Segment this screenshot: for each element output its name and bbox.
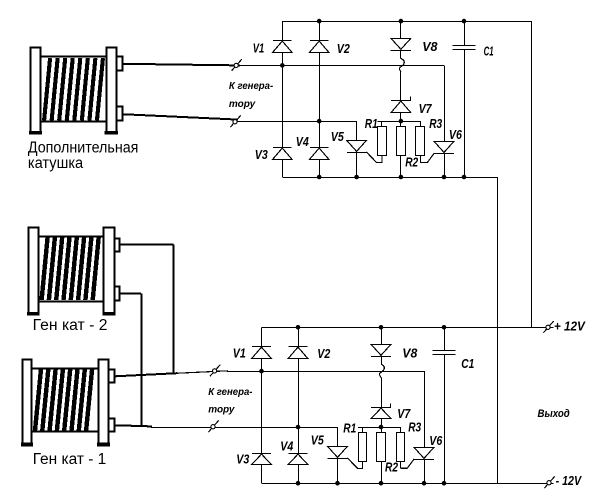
svg-text:V8: V8 [402, 347, 417, 361]
lower block: top rail / +12V wire [262, 327, 554, 329]
svg-text:- 12V: - 12V [556, 474, 583, 488]
coil L3 left flange bottom smear [21, 443, 33, 447]
terminal mark lower input 2 [208, 421, 218, 433]
coil L1 right flange [107, 48, 117, 134]
wire: upper V1 branch [282, 21, 284, 177]
svg-text:V1: V1 [253, 41, 265, 55]
coil L2 winding body [38, 237, 103, 302]
terminal mark lower input 1 [210, 365, 220, 377]
wire: upper R3 bottom stub to V6 gate [420, 156, 422, 163]
svg-text:V5: V5 [331, 130, 345, 144]
diode V2 (upper block) [309, 41, 329, 53]
wire: upper V8 to hook [400, 50, 402, 58]
svg-text:V1: V1 [233, 347, 246, 361]
coil L1 left flange bottom smear [29, 131, 42, 135]
coil L3 right flange bottom smear [97, 443, 110, 447]
coil L2 right flange [104, 228, 115, 315]
svg-text:R2: R2 [385, 461, 398, 475]
thyristor V6 (lower block) [401, 448, 434, 469]
terminal mark upper input 2 [230, 116, 240, 128]
coil L1 terminal stub bottom [117, 107, 123, 121]
wire: upper R2 bottom to bottom rail [400, 156, 402, 177]
upper block: input wire 2 (from К генератору) [237, 121, 357, 123]
diode V4 (upper block) [309, 148, 329, 160]
svg-text:V7: V7 [397, 407, 411, 421]
coil L2 left flange [29, 228, 39, 315]
wire: coil L3 top terminal to lower-block input 1 (slanted thick) [113, 373, 177, 376]
wire: upper V6 branch [444, 65, 446, 177]
zener diode V7 (upper block) [391, 96, 411, 112]
wire: upper hook to V7 [400, 72, 402, 101]
upper block: bottom rail wire [282, 177, 497, 179]
svg-text:Выход: Выход [538, 408, 570, 420]
svg-text:R3: R3 [429, 117, 442, 131]
wire: coil L2 top terminal vertical drop to lower-block input 1 [173, 245, 175, 374]
terminal mark -12V output [544, 477, 554, 489]
diode V8 (lower block) [371, 345, 391, 357]
thyristor V5 (lower block) [328, 447, 363, 469]
svg-text:V3: V3 [236, 452, 249, 466]
wire: coil L2 bottom terminal vertical drop to lower-block input 2 [141, 293, 143, 426]
resistor R2 (lower block) [377, 433, 386, 462]
junction dots upper block top rail [317, 19, 466, 24]
wire: lower V7 to resistor bar [381, 418, 383, 427]
diode V1 (upper block) [273, 41, 293, 53]
junction dots lower input 2 / resistor bar [296, 425, 384, 430]
svg-text:V3: V3 [255, 148, 268, 162]
wire: upper C1 branch [464, 21, 466, 177]
junction dot lower input 1 at V1 [259, 369, 264, 374]
upper block: top-rail right drop wire to +12V rail [531, 21, 533, 327]
wire: lower-block input 1 slanted thin segment [176, 371, 228, 374]
wire: coil L1 bottom terminal to lower input (slanted) [122, 114, 238, 119]
coil L1 winding body [41, 57, 106, 122]
svg-text:R1: R1 [365, 117, 378, 131]
coil L2 left flange bottom smear [27, 312, 40, 316]
coil L3 left flange [23, 360, 32, 446]
resistor R2 (upper block) [397, 127, 406, 156]
svg-text:C1: C1 [461, 357, 474, 371]
svg-text:Дополнительная: Дополнительная [28, 139, 138, 156]
lower block: input wire 2 [151, 427, 338, 429]
wire: lower V6 branch [424, 371, 426, 483]
svg-text:V8: V8 [422, 40, 437, 54]
svg-text:тору: тору [208, 404, 235, 415]
svg-text:V5: V5 [311, 433, 325, 447]
wire: coil L2 bottom terminal horizontal [120, 293, 142, 295]
svg-text:К генера-: К генера- [229, 81, 274, 92]
terminal mark +12V output [543, 321, 553, 333]
thyristor V5 (upper block) [347, 141, 382, 163]
junction dot upper input 1 at V1 [280, 63, 285, 68]
coil L2 terminal stub top [115, 239, 120, 252]
wire: upper V5 branch [356, 121, 358, 177]
capacitor C1 (lower block) [433, 351, 456, 355]
wire: lower R3 bottom stub to V6 gate [400, 462, 402, 468]
wire: lower C1 branch [444, 327, 446, 483]
coil L1 right flange bottom smear [105, 131, 118, 135]
diode V4 (lower block) [288, 454, 308, 465]
resistor R1 (lower block) [359, 433, 367, 462]
coil L3 terminal stub bottom [109, 419, 115, 432]
wire: lower V1 branch [261, 327, 263, 483]
coil L1 terminal stub top [117, 57, 123, 71]
terminal mark upper input 1 [232, 59, 242, 71]
diode V2 (lower block) [288, 347, 308, 359]
coil L3 terminal stub top [109, 370, 115, 383]
wire: lower R2 bottom to bottom rail [381, 462, 383, 483]
wire: upper V8/V7 branch upper segment [400, 21, 402, 38]
wire: lower hook to V7 [381, 377, 383, 407]
resistor R3 (upper block) [416, 127, 425, 156]
svg-text:+ 12V: + 12V [554, 320, 586, 334]
lower block: input wire 1 [227, 371, 424, 373]
wire: coil L3 bottom terminal (thick) [113, 425, 152, 426]
wire: lower V5 branch [337, 427, 339, 483]
wire: upper V7 to resistor bar [400, 112, 402, 121]
svg-text:V6: V6 [429, 434, 443, 448]
upper block: top rail wire [282, 21, 531, 23]
diode V3 (upper block) [273, 148, 293, 160]
coil L1 left flange [31, 48, 41, 134]
svg-text:Ген кат - 1: Ген кат - 1 [33, 451, 107, 468]
svg-text:К генера-: К генера- [208, 387, 253, 398]
wire: coil L2 top terminal horizontal [120, 244, 174, 246]
zener diode V7 (lower block) [371, 403, 391, 418]
wire: lower V8/V7 branch upper segment [381, 327, 383, 344]
wire jump over input 1 (lower block) [380, 364, 385, 378]
svg-text:V2: V2 [337, 42, 350, 56]
upper block: bottom-rail right drop wire to -12V rail [497, 177, 499, 483]
svg-text:катушка: катушка [28, 155, 84, 172]
svg-text:тору: тору [229, 99, 256, 110]
junction dots lower bottom rail [296, 481, 447, 486]
svg-text:V7: V7 [419, 102, 433, 116]
lower block: resistor top bar wire [358, 427, 401, 433]
upper block: resistor top bar wire [377, 121, 420, 127]
junction dots upper input 2 / resistor bar [317, 119, 403, 124]
coil L2 terminal stub bottom [115, 287, 120, 301]
svg-text:R2: R2 [405, 156, 418, 170]
diode V3 (lower block) [252, 454, 272, 465]
capacitor C1 (upper block) [453, 46, 476, 50]
coil L2 right flange bottom smear [102, 312, 115, 316]
svg-text:V6: V6 [449, 128, 463, 142]
wire jump over input 1 (upper block) [399, 58, 404, 72]
coil L3 winding body [32, 369, 99, 432]
lower block: bottom rail / -12V wire [262, 483, 554, 485]
diode V1 (lower block) [252, 347, 272, 359]
svg-text:Ген кат - 2: Ген кат - 2 [33, 317, 108, 334]
coil L3 right flange [99, 360, 109, 446]
svg-text:V4: V4 [296, 135, 309, 149]
svg-text:R3: R3 [408, 420, 421, 434]
wire: coil L1 top terminal to upper input (slanted) [122, 64, 240, 66]
svg-text:C1: C1 [484, 45, 494, 59]
svg-text:V2: V2 [317, 347, 330, 361]
wire: lower V8 to hook [381, 356, 383, 364]
upper block: input wire 1 (from К генератору) [237, 65, 444, 67]
wire: upper V2 branch [319, 21, 321, 177]
junction dots lower block top rail [296, 325, 447, 330]
wire: lower V2 branch [298, 327, 300, 483]
svg-text:R1: R1 [343, 422, 356, 436]
svg-text:V4: V4 [280, 440, 293, 454]
resistor R3 (lower block) [397, 433, 405, 462]
junction dots upper bottom rail [317, 175, 466, 180]
diode V8 (upper block) [391, 39, 411, 51]
thyristor V6 (upper block) [420, 142, 454, 163]
resistor R1 (upper block) [378, 127, 387, 156]
